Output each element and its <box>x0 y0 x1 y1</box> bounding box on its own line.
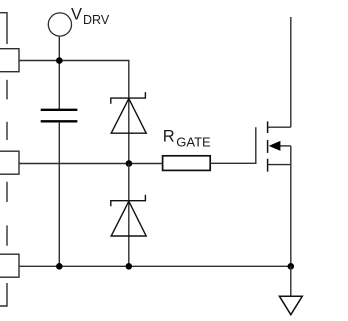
resistor R_GATE body <box>163 156 211 171</box>
wire resistor to MOSFET gate <box>210 127 256 163</box>
IC boundary dash segment 3 <box>6 182 8 202</box>
node junction dot bottom rail at source <box>288 263 295 270</box>
ground symbol <box>279 296 302 315</box>
label V_DRV <box>71 6 110 28</box>
transistor Q1 body arrow <box>269 141 291 151</box>
transistor Q1 channel segments <box>267 121 269 171</box>
node junction dot top rail <box>56 57 63 64</box>
svg-text:GATE: GATE <box>176 135 211 150</box>
voltage source V_DRV circle <box>48 13 71 36</box>
IC boundary dash segment 4 <box>6 225 8 245</box>
capacitor C plates <box>41 110 78 122</box>
wire drain up <box>290 17 292 127</box>
IC boundary dashed bottom corner <box>0 283 7 306</box>
wire source and body down to bottom rail <box>290 146 292 266</box>
wire to ground <box>290 266 292 296</box>
transistor Q1 drain stub <box>268 126 291 128</box>
wire middle rail from pin box to zener junction <box>19 163 162 165</box>
wire V_DRV stub down through junction to capacitor <box>58 36 60 109</box>
wire capacitor bottom down to bottom rail <box>58 122 60 266</box>
pin box middle <box>0 151 19 174</box>
transistor Q1 source stub <box>268 164 291 166</box>
IC boundary dashed top corner <box>0 13 7 44</box>
svg-text:V: V <box>71 6 82 24</box>
wire top rail from pin box to corner <box>19 61 129 99</box>
zener diode D2 <box>111 195 146 236</box>
node junction dot bottom rail at zener <box>126 263 133 270</box>
wire bottom rail <box>19 265 291 267</box>
IC boundary dash segment 2 <box>6 122 8 140</box>
pin box bottom <box>0 254 19 277</box>
wire zener D1 vertical through to middle rail <box>128 98 130 163</box>
node junction dot bottom rail at capacitor <box>56 263 63 270</box>
pin box top (driver output pin) <box>0 49 19 72</box>
IC boundary dash segment 1 <box>6 80 8 100</box>
node junction dot middle rail <box>126 160 133 167</box>
svg-text:DRV: DRV <box>83 13 110 27</box>
svg-text:R: R <box>163 128 175 146</box>
wire zener D2 vertical from middle rail to bottom rail <box>128 164 130 267</box>
label R_GATE <box>163 128 211 150</box>
zener diode D1 <box>111 92 146 133</box>
